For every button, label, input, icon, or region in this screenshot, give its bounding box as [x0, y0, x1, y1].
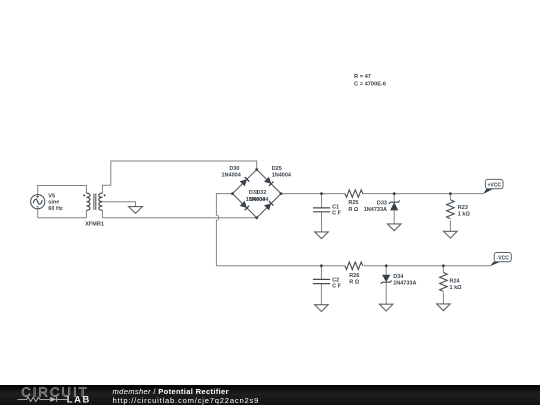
resistor R25 [345, 190, 363, 198]
svg-text:1N4004: 1N4004 [272, 173, 292, 179]
svg-text:R = 47: R = 47 [354, 74, 371, 80]
zener diode D33 [389, 201, 400, 211]
label V5 sine 60 Hz [48, 193, 63, 212]
node dot C2 tap [320, 264, 323, 267]
zener diode D34 [381, 275, 392, 284]
label R26 R ohm [349, 273, 360, 285]
svg-text:1 kΩ: 1 kΩ [450, 285, 463, 291]
svg-text:1N4004: 1N4004 [222, 173, 242, 179]
wire D33 column [393, 194, 395, 203]
node dot D33 tap [393, 192, 396, 195]
ground at transformer center tap [129, 207, 143, 214]
svg-text:R24: R24 [450, 278, 461, 284]
svg-text:-VCC: -VCC [497, 255, 510, 261]
diode D25 (top vertex to right vertex) [264, 177, 273, 186]
resistor R26 [345, 262, 363, 270]
resistor R24 [440, 273, 448, 292]
svg-text:C = 4700E-6: C = 4700E-6 [354, 82, 386, 88]
label D34 1N4733A [393, 274, 416, 287]
transformer polarity dot right [104, 194, 106, 196]
svg-text:1N4004: 1N4004 [249, 197, 269, 203]
svg-text:R26: R26 [349, 273, 359, 279]
svg-text:sine: sine [48, 200, 59, 206]
-VCC flag [490, 253, 512, 267]
wire transformer secondary top to bridge top [102, 161, 256, 193]
label C2 C F [332, 278, 342, 290]
ground below D33 [387, 224, 401, 231]
capacitor C2 [313, 279, 330, 283]
label D30 1N4004 [222, 166, 242, 179]
ground below D34 [379, 304, 393, 311]
svg-text:LAB: LAB [67, 393, 91, 404]
svg-text:V5: V5 [48, 193, 55, 199]
label D33 1N4733A [364, 200, 387, 213]
svg-text:C F: C F [332, 284, 342, 290]
wire bridge left vertex to negative rail with hop over AC wire [216, 194, 345, 266]
wire transformer center tap to ground [102, 202, 135, 207]
svg-text:C F: C F [332, 211, 342, 217]
ground below C2 [315, 305, 329, 312]
wire V5 bottom to transformer primary bottom [38, 209, 87, 218]
svg-text:60 Hz: 60 Hz [48, 206, 63, 212]
svg-text:D32: D32 [256, 190, 266, 196]
wire C1 column [321, 194, 323, 208]
node dot bridge top [255, 168, 258, 171]
CircuitLab logo [0, 385, 110, 405]
wire R23 column [449, 194, 451, 200]
+VCC flag [483, 179, 503, 194]
voltage source V5 [31, 195, 45, 209]
node dot bridge left [231, 192, 234, 195]
transformer XFMR1 [86, 193, 102, 210]
capacitor C1 [313, 208, 330, 212]
svg-text:D30: D30 [229, 166, 239, 172]
svg-text:1N4733A: 1N4733A [393, 281, 416, 287]
node dot R24 tap [442, 264, 445, 267]
svg-text:R Ω: R Ω [348, 207, 359, 213]
ground below R24 [437, 304, 451, 311]
wire C2 column [320, 266, 322, 280]
svg-text:1 kΩ: 1 kΩ [458, 212, 471, 218]
svg-text:R25: R25 [348, 200, 358, 206]
wire R24 column [442, 266, 444, 273]
ground below R23 [444, 231, 458, 238]
svg-text:C2: C2 [332, 278, 339, 284]
wire V5 top to transformer primary top [38, 186, 87, 195]
transformer polarity dot left [83, 194, 85, 196]
label D25 1N4004 [272, 166, 292, 179]
wire bridge right vertex to +VCC rail [281, 193, 345, 195]
label R23 1 kohm [458, 205, 471, 218]
label R25 R ohm [348, 200, 359, 213]
svg-text:+VCC: +VCC [487, 182, 501, 188]
ground below C1 [315, 232, 329, 239]
svg-text:R23: R23 [458, 205, 468, 211]
svg-text:1N4733A: 1N4733A [364, 207, 387, 213]
diode D30 (left vertex to top vertex) [240, 177, 250, 186]
diode D32 (bottom vertex to right vertex) [264, 201, 273, 210]
node dot bridge right [280, 192, 283, 195]
resistor R23 [447, 200, 455, 219]
bridge edges [233, 170, 282, 218]
footer black bar [0, 385, 540, 405]
wire transformer secondary bottom to bridge bottom vertex [102, 210, 256, 217]
svg-text:R Ω: R Ω [349, 280, 360, 286]
node dot bridge bottom [255, 216, 258, 219]
svg-text:D25: D25 [272, 166, 282, 172]
svg-text:XFMR1: XFMR1 [85, 222, 104, 228]
label D31 D32 overlapped at bridge center [246, 190, 270, 203]
node dot D34 tap [385, 264, 388, 267]
svg-text:D33: D33 [377, 200, 387, 206]
label C1 C F [332, 205, 342, 217]
node dot R23 tap [449, 192, 452, 195]
wire D34 column [385, 266, 387, 275]
footer title text [113, 387, 260, 405]
label R24 1 kohm [450, 278, 463, 291]
svg-text:D34: D34 [393, 274, 404, 280]
node dot C1 tap [320, 192, 323, 195]
diode D31 (left vertex to bottom vertex) [240, 201, 250, 210]
